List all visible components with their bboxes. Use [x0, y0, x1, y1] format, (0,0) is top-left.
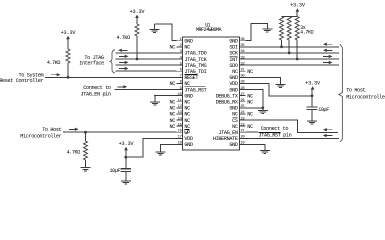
wire resistor to INT: [296, 40, 298, 59]
svg-text:Connect to: Connect to: [83, 85, 111, 91]
svg-text:7: 7: [180, 75, 182, 79]
junction node on JTAG_TCK: [136, 58, 139, 61]
wire node to capacitor: [311, 96, 313, 107]
svg-text:GND: GND: [229, 39, 237, 45]
wire resistor bank top bar: [282, 16, 298, 18]
pin 36 stub (right, GND): [240, 40, 246, 42]
pin 22 stub (right, NC): [240, 125, 246, 127]
arrow WP in: [69, 128, 76, 130]
capacitor 10uF (right): [307, 106, 318, 108]
arrow JTAG_RST in: [118, 86, 125, 88]
svg-text:NC: NC: [184, 118, 190, 124]
pin 29 stub (right, VDD): [240, 82, 246, 84]
svg-text:NC: NC: [184, 81, 190, 87]
pin 30 stub (right, GND): [240, 76, 246, 78]
wire JTAG_RST net: [114, 89, 176, 91]
wire VDD node to capacitor: [125, 157, 127, 169]
wire pin 30 GND to ground: [246, 77, 281, 84]
svg-text:MRF24WB0MA: MRF24WB0MA: [196, 27, 222, 33]
pin 6 stub (left, JTAG_TDI): [177, 70, 183, 72]
pin 12 stub (left, NC): [177, 107, 183, 109]
svg-text:HIBERNATE: HIBERNATE: [213, 136, 238, 142]
pin 5 stub (left, JTAG_TMS): [177, 64, 183, 66]
resistor 4.7K pull-up SDI: [280, 17, 284, 41]
svg-text:4.7KΩ: 4.7KΩ: [67, 149, 81, 155]
wire capacitor to ground: [125, 171, 127, 181]
ground (pin 19): [260, 149, 270, 151]
pin 8 stub (left, NC): [177, 82, 183, 84]
pin 9 stub (left, JTAG_RST): [177, 89, 183, 91]
pin 14 stub (left, NC): [177, 119, 183, 121]
svg-text:NC: NC: [170, 45, 176, 51]
resistor 4.7K RESET pull-up: [66, 49, 70, 63]
resistor 4.7K pull-up INT: [295, 17, 299, 41]
pin 1 stub (left, GND): [177, 40, 183, 42]
pin 4 stub (left, JTAG_TCK): [177, 58, 183, 60]
junction VDD left node: [124, 156, 127, 159]
pin 10 stub (left, GND): [177, 95, 183, 97]
junction VDD right node: [311, 94, 314, 97]
wire resistor to ground: [85, 160, 87, 167]
wire +3.3V to resistor bank: [296, 11, 298, 17]
svg-text:NC: NC: [170, 112, 176, 118]
svg-text:NC: NC: [170, 100, 176, 106]
pin 21 stub (right, JTAG_EN): [240, 131, 246, 133]
svg-text:DEBUG_RX: DEBUG_RX: [216, 100, 239, 106]
wire pin 1 GND to ground: [154, 24, 176, 41]
ground (pin 18): [156, 151, 166, 153]
pin 16 stub (left, WP): [177, 131, 183, 133]
svg-text:JTAG_TCK: JTAG_TCK: [184, 57, 207, 63]
arrow JTAG_TDO out: [121, 49, 128, 51]
svg-text:JTAG_RST: JTAG_RST: [184, 87, 206, 93]
wire +3.3V to resistor: [136, 17, 138, 24]
IC U1 MRF24WB0MA module body: [183, 37, 240, 150]
svg-text:NC: NC: [184, 106, 190, 112]
ground (pin 10): [150, 101, 160, 103]
wire JTAG_TDO: [116, 52, 177, 54]
pin 2 stub (left, NC): [177, 46, 183, 48]
wire pin 36 GND to ground: [246, 24, 268, 41]
pin 20 stub (right, HIBERNATE): [240, 137, 246, 139]
junction node RESET: [67, 76, 70, 79]
svg-text:GND: GND: [229, 75, 237, 81]
wire WP net to host: [63, 131, 177, 133]
resistor 4.7K pull-up SCK: [287, 17, 291, 41]
overline JTAG_RST: [259, 131, 281, 133]
wire +3.3V to VDD node: [125, 149, 127, 157]
wire resistor to SDI: [281, 40, 283, 47]
junction INT pull-up: [296, 58, 299, 61]
pin 18 stub (left, GND): [177, 143, 183, 145]
capacitor 10uF (left): [121, 168, 132, 170]
wire SDI net: [246, 46, 339, 48]
arrow INT out: [323, 55, 330, 57]
arrow HIBERNATE in: [325, 135, 332, 137]
svg-text:Connect to: Connect to: [261, 126, 289, 132]
junction SCK pull-up: [288, 52, 291, 55]
arrow JTAG_TCK in: [119, 55, 126, 57]
svg-text:NC: NC: [232, 112, 238, 118]
arrow SDI in: [326, 43, 333, 45]
svg-text:NC: NC: [170, 81, 176, 87]
arrow CS in: [326, 129, 333, 131]
pin 11 stub (left, NC): [177, 101, 183, 103]
svg-text:NC: NC: [247, 112, 253, 118]
svg-text:4.7KΩ: 4.7KΩ: [117, 35, 131, 41]
svg-text:+3.3V: +3.3V: [61, 30, 77, 36]
svg-text:27: 27: [240, 93, 244, 97]
svg-text:4.7KΩ: 4.7KΩ: [300, 30, 314, 36]
svg-text:+3.3V: +3.3V: [119, 141, 135, 147]
svg-text:JTAG_TDO: JTAG_TDO: [184, 51, 206, 57]
svg-text:NC: NC: [184, 112, 190, 118]
svg-text:To Host: To Host: [346, 88, 365, 94]
svg-text:VDD: VDD: [229, 81, 237, 87]
pin 33 stub (right, INT): [240, 58, 246, 60]
wire VDD node to pin 17: [126, 138, 177, 157]
wire SCK net: [246, 52, 339, 54]
svg-text:JTAG_TMS: JTAG_TMS: [184, 63, 206, 69]
pin 34 stub (right, SCK): [240, 52, 246, 54]
svg-text:NC: NC: [247, 100, 253, 106]
ground (WP pull-down): [81, 167, 91, 169]
pin 32 stub (right, SDO): [240, 64, 246, 66]
pin 7 stub (left, RESET): [177, 76, 183, 78]
svg-text:GND: GND: [229, 142, 237, 148]
svg-text:GND: GND: [184, 142, 192, 148]
wire resistor to RESET net: [67, 63, 69, 77]
svg-text:17: 17: [178, 136, 182, 140]
svg-text:GND: GND: [229, 87, 237, 93]
svg-text:NC: NC: [184, 124, 190, 130]
arrow JTAG_TMS in: [119, 61, 126, 63]
svg-text:DEBUG_TX: DEBUG_TX: [216, 93, 239, 99]
svg-text:JTAG_EN: JTAG_EN: [218, 130, 237, 136]
svg-text:NC: NC: [247, 69, 253, 75]
pin 25 stub (right, GND): [240, 107, 246, 109]
ground (pin 30): [276, 84, 286, 86]
wire +3.3V lead: [311, 89, 313, 96]
svg-text:NC: NC: [247, 124, 253, 130]
ground (pins 28,25): [258, 110, 268, 112]
junction GND 28/25: [261, 106, 264, 109]
svg-text:NC: NC: [170, 118, 176, 124]
svg-text:JTAG_RST pin: JTAG_RST pin: [259, 132, 292, 138]
ground (right cap): [307, 120, 317, 122]
wire pin 25 GND: [246, 107, 263, 109]
wire JTAG_TCK: [116, 58, 177, 60]
svg-text:10µF: 10µF: [109, 168, 120, 174]
svg-text:WP: WP: [184, 130, 190, 136]
svg-text:INT: INT: [229, 57, 237, 63]
ground (left cap): [121, 180, 131, 182]
wire CS net routed: [246, 120, 339, 133]
wire pin 29 VDD to +3.3V node: [246, 83, 313, 95]
wire resistor to SCK: [288, 40, 290, 53]
pin 28 stub (right, GND): [240, 89, 246, 91]
wire SDO net: [246, 64, 339, 66]
wire JTAG_EN stub: [246, 131, 258, 133]
wire INT net: [246, 58, 339, 60]
junction WP resistor: [84, 131, 87, 134]
pin 35 stub (right, SDI): [240, 46, 246, 48]
svg-text:JTAG_TDI: JTAG_TDI: [184, 69, 206, 75]
brace JTAG group: [109, 50, 115, 73]
svg-text:GND: GND: [184, 39, 192, 45]
wire pin 18 GND to ground: [161, 144, 177, 151]
svg-text:SCK: SCK: [229, 51, 238, 57]
svg-text:Microcontroller: Microcontroller: [20, 133, 61, 139]
ground (pin 1): [149, 29, 159, 31]
svg-text:JTAG_EN pin: JTAG_EN pin: [81, 91, 111, 97]
pin 17 stub (left, VDD): [177, 137, 183, 139]
pin 27 stub (right, DEBUG_TX): [240, 95, 246, 97]
svg-text:NC: NC: [232, 124, 238, 130]
pin 15 stub (left, NC): [177, 125, 183, 127]
svg-text:RESET: RESET: [184, 75, 198, 81]
svg-text:4.7KΩ: 4.7KΩ: [47, 60, 61, 66]
svg-text:10µF: 10µF: [318, 107, 329, 113]
arrow JTAG_TDI in: [119, 68, 126, 70]
svg-text:NC: NC: [232, 69, 238, 75]
wire pin 19 GND to ground: [246, 144, 265, 150]
wire RESET net to pin 7: [45, 76, 177, 78]
svg-text:+3.3V: +3.3V: [130, 9, 146, 15]
wire resistor to JTAG_TCK net: [136, 36, 138, 59]
pin 24 stub (right, NC): [240, 113, 246, 115]
wire +3.3V to resistor: [67, 38, 69, 49]
ground lead: [153, 24, 155, 30]
svg-text:GND: GND: [184, 93, 192, 99]
pin 3 stub (left, JTAG_TDO): [177, 52, 183, 54]
svg-text:NC: NC: [247, 93, 253, 99]
resistor 4.7K WP pull-down: [84, 141, 88, 160]
svg-text:NC: NC: [184, 100, 190, 106]
svg-text:Reset Controller: Reset Controller: [0, 78, 43, 84]
pin 26 stub (right, DEBUG_RX): [240, 101, 246, 103]
wire WP to resistor: [85, 132, 87, 141]
svg-text:Microcontroller: Microcontroller: [346, 94, 385, 100]
arrow SDO out: [323, 62, 330, 64]
junction SDI pull-up: [280, 45, 283, 48]
wire JTAG_TMS: [116, 64, 177, 66]
signal direction arrow into RESET: [51, 74, 58, 76]
svg-text:CS: CS: [232, 118, 238, 124]
svg-text:NC: NC: [170, 124, 176, 130]
pin 19 stub (right, GND): [240, 143, 246, 145]
wire pin 10 GND to ground: [155, 96, 177, 102]
pin 13 stub (left, NC): [177, 113, 183, 115]
svg-text:Interface: Interface: [79, 61, 104, 67]
arrow SCK in: [326, 49, 333, 51]
svg-text:+3.3V: +3.3V: [305, 81, 321, 87]
svg-text:To Host: To Host: [42, 127, 61, 133]
svg-text:SDO: SDO: [229, 63, 237, 69]
pin 31 stub (right, NC): [240, 70, 246, 72]
resistor 4.7K JTAG_TCK pull-up: [135, 24, 139, 36]
junction pin 10 gnd corner: [154, 95, 156, 97]
svg-text:VDD: VDD: [184, 136, 192, 142]
brace host signal group: [339, 44, 343, 142]
wire capacitor to ground: [311, 110, 313, 121]
svg-text:GND: GND: [229, 106, 237, 112]
svg-text:NC: NC: [184, 45, 190, 51]
pin 23 stub (right, CS): [240, 119, 246, 121]
wire pin 28 GND down: [246, 90, 263, 108]
svg-text:NC: NC: [170, 106, 176, 112]
ground (pin 36): [262, 28, 272, 30]
ground lead: [262, 108, 264, 111]
svg-text:+3.3V: +3.3V: [290, 3, 306, 9]
wire HIBERNATE net: [246, 137, 339, 139]
wire JTAG_TDI: [116, 70, 177, 72]
svg-text:SDI: SDI: [229, 45, 237, 51]
